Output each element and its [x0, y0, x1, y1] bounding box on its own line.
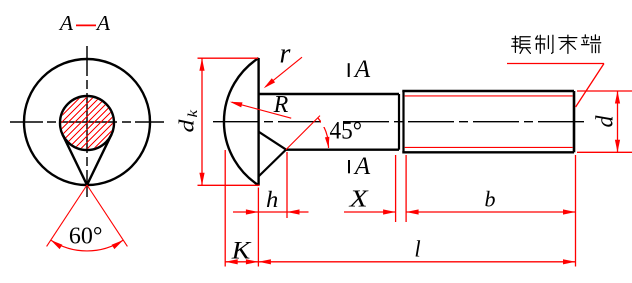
nib upper taper line [259, 132, 286, 150]
h dimension line (outside arrows) [233, 211, 309, 213]
svg-text:K: K [231, 238, 252, 265]
svg-text:d: d [593, 115, 619, 128]
45 deg dimension arc [318, 118, 329, 148]
section hatch (shank cross-section, red 45deg lines) [40, 0, 140, 283]
b left extension line [405, 155, 407, 222]
dk dimension: bottom extension line [198, 184, 260, 186]
svg-text:60°: 60° [69, 224, 103, 250]
45 deg leader line from nib apex [286, 116, 320, 150]
thread minor diameter bottom (red thin) [405, 146, 573, 148]
d dimension: bottom extension line [577, 151, 632, 153]
X right extension line [395, 155, 397, 222]
d dimension: top extension line [577, 90, 632, 92]
svg-text:A: A [353, 56, 371, 83]
section view A-A : inner circle (shank section) [60, 96, 114, 150]
section plane marker lower: tick [348, 160, 350, 173]
section view A-A : vertical centerline [86, 46, 88, 197]
X dimension line [344, 211, 396, 213]
thread start vertical [402, 91, 404, 152]
svg-text:A: A [58, 11, 74, 35]
head bearing face (vertical back line) [257, 58, 259, 185]
svg-text:l: l [414, 237, 420, 262]
svg-text:h: h [266, 187, 278, 213]
dk dimension: top extension line [198, 57, 259, 59]
shank bottom line [286, 148, 399, 150]
svg-text:b: b [485, 187, 496, 212]
60 deg dimension arc with arrowheads [51, 240, 124, 251]
svg-text:A: A [353, 153, 371, 180]
svg-text:X: X [348, 187, 369, 213]
thread end vertical [573, 91, 576, 152]
45 deg text [321, 117, 343, 127]
side view main centerline [213, 121, 588, 123]
K dimension: left extension line [224, 150, 226, 267]
section view A-A : horizontal centerline [10, 121, 164, 123]
dk dimension line with arrows [201, 58, 203, 185]
d dimension line with arrows [617, 91, 619, 152]
shared extension line under head bearing face [257, 188, 259, 267]
svg-text:r: r [280, 39, 291, 70]
section view A-A : outer circle (head dk outline) [24, 59, 150, 185]
60 deg dimension legs (red) [47, 185, 87, 246]
l/b right extension line [575, 155, 577, 267]
shank end vertical [398, 94, 400, 150]
shank top line [259, 93, 399, 95]
svg-text:R: R [273, 92, 289, 118]
head dome arc [224, 58, 259, 185]
R dome radius leader [232, 102, 291, 118]
thread minor diameter top (red thin) [405, 95, 573, 97]
svg-text:A: A [95, 11, 111, 35]
l dimension line with arrows [258, 261, 575, 263]
h right extension line (nib apex) [286, 152, 288, 218]
rolled-end note text (Chinese glyph strokes) [512, 36, 531, 53]
nib lower 45deg line [259, 150, 286, 177]
svg-text:45°: 45° [330, 118, 363, 145]
thread major bottom line [402, 151, 574, 153]
r fillet leader [266, 57, 303, 86]
K dimension line with arrows [225, 261, 258, 263]
section plane marker upper: tick [348, 63, 350, 77]
b dimension line with arrows [406, 211, 575, 213]
rolled-end note leader (red) [507, 63, 604, 65]
teardrop nib tangent lines [63, 135, 87, 185]
thread major top line [402, 90, 574, 92]
